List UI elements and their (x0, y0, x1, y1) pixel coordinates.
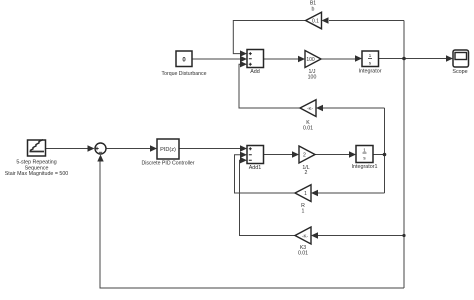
Scope (452, 50, 468, 75)
arrowhead into Integrator1 (349, 151, 356, 157)
arrowhead into PID (150, 145, 157, 151)
wire speed feedback bottom loop (100, 161, 404, 288)
gain K (300, 100, 316, 132)
Integrator1 (351, 146, 377, 170)
wire Add to 1/J gain (264, 58, 300, 60)
wire B output to Add top input (233, 21, 305, 54)
wire 1/J to Integrator (321, 58, 356, 60)
wire Integrator to Scope (379, 58, 448, 60)
arrowhead into Add top (240, 50, 247, 56)
constant Torque Disturbance (162, 51, 207, 77)
svg-text:Add1: Add1 (249, 165, 262, 171)
svg-text:-K-: -K- (302, 234, 309, 239)
wire K output to Add bottom input (239, 64, 300, 108)
svg-text:0.01: 0.01 (298, 251, 308, 257)
svg-text:Scope: Scope (452, 69, 467, 75)
Add sum block (247, 50, 264, 76)
arrowhead into B gain (leftward) (322, 17, 329, 23)
svg-text:Torque Disturbance: Torque Disturbance (162, 71, 207, 77)
svg-text:b: b (312, 7, 315, 13)
wire PID to Add1 top input (179, 148, 241, 150)
arrowhead into Add1 top (240, 145, 247, 151)
wire Add1 to 1/L gain (264, 154, 294, 156)
wire R output to Add1 middle input (235, 155, 296, 193)
svg-text:-K-: -K- (307, 106, 314, 111)
svg-text:Integrator1: Integrator1 (351, 164, 377, 170)
arrowhead into Add1 middle (240, 152, 247, 158)
svg-text:PID(z): PID(z) (160, 147, 176, 153)
wire node W to K3 input (318, 235, 404, 237)
junction current node dot (383, 153, 387, 157)
source block 5-step Repeating Sequence (5, 140, 69, 177)
wire Torque Disturbance to Add middle input (192, 58, 241, 60)
svg-text:1: 1 (304, 191, 307, 197)
svg-text:Discrete PID Controller: Discrete PID Controller (141, 161, 194, 167)
gain K3 (295, 227, 311, 257)
arrowhead into Add1 bottom (240, 157, 247, 163)
gain B1 (306, 1, 322, 29)
wire K3 output to Add1 bottom input (240, 160, 296, 235)
wire node I to K gain input (323, 107, 385, 109)
wire speed node vertical (403, 21, 405, 289)
arrowhead into R gain (leftward) (311, 190, 318, 196)
svg-text:Add: Add (250, 69, 260, 75)
svg-text:0.01: 0.01 (303, 126, 313, 132)
arrowhead into sum bottom (97, 155, 103, 162)
wire node I to R gain input (318, 192, 385, 194)
svg-text:100: 100 (308, 74, 317, 80)
wire 1/L to Integrator1 (315, 154, 350, 156)
wire node W to B gain input (329, 20, 404, 22)
Discrete PID Controller U1 (141, 139, 194, 167)
arrowhead into Scope (446, 55, 453, 61)
svg-text:Integrator: Integrator (358, 68, 381, 74)
junction K3 branch dot (402, 234, 405, 237)
arrowhead into K gain (leftward) (316, 105, 323, 111)
svg-text:0.1: 0.1 (312, 19, 319, 25)
wire current node vertical (384, 108, 386, 193)
arrowhead into Integrator (355, 55, 362, 61)
wire Integrator1 output to node I (373, 154, 385, 156)
wire source to sum (46, 148, 90, 150)
sum junction (95, 143, 106, 154)
arrowhead into K3 gain (leftward) (311, 232, 318, 238)
svg-text:1: 1 (302, 209, 305, 215)
wire sum to PID (106, 148, 151, 150)
arrowhead into sum left (88, 145, 95, 151)
svg-text:Stair Max Magnitude = 500: Stair Max Magnitude = 500 (5, 171, 69, 177)
gain 1/L (299, 146, 315, 176)
gain R (295, 185, 311, 215)
arrowhead into Add bottom (240, 61, 247, 67)
svg-text:2: 2 (305, 170, 308, 176)
svg-text:2: 2 (303, 153, 306, 159)
Add1 sum block (247, 146, 264, 172)
gain 1/J (305, 51, 321, 81)
arrowhead into 1/J (298, 56, 305, 62)
arrowhead into Add middle (240, 56, 247, 62)
Integrator (358, 51, 381, 74)
svg-text:100: 100 (306, 57, 315, 63)
junction speed node dot (402, 57, 406, 61)
arrowhead into 1/L (292, 151, 299, 157)
